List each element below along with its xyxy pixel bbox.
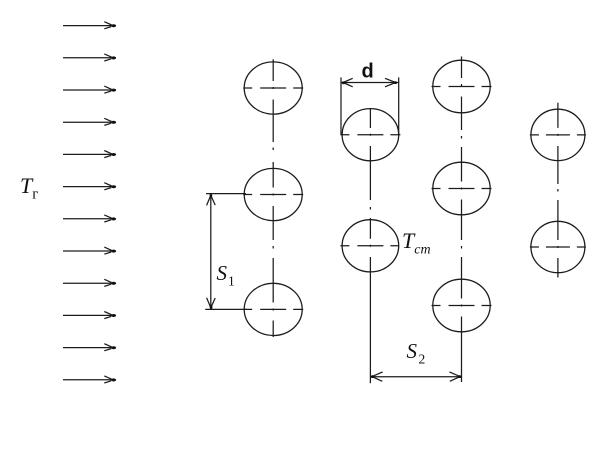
centerline horizontal circle row2 col3: [432, 188, 492, 190]
centerline vertical axis col1: [272, 59, 274, 337]
centerline vertical axis col3: [461, 57, 463, 383]
tube circle row2 col2: [342, 220, 399, 272]
label T_gas: [20, 173, 38, 203]
label S1: [217, 261, 235, 289]
flow arrow 5: [63, 151, 116, 158]
svg-text:Tг: Tг: [20, 173, 38, 203]
centerline horizontal circle row2 col1: [243, 194, 303, 196]
centerline horizontal circle row1 col3: [432, 86, 492, 88]
tube circle row2 col1: [244, 168, 302, 220]
tube circle row1 col2: [342, 109, 399, 161]
dimension d extension line left: [340, 77, 342, 134]
dimension d extension line right: [398, 77, 400, 134]
flow arrow 9: [63, 279, 116, 286]
svg-text:S2: S2: [407, 339, 426, 367]
flow arrow 1: [63, 22, 116, 29]
svg-text:d: d: [362, 61, 374, 83]
flow arrow 7: [63, 215, 116, 222]
centerline horizontal circle row2 col4: [530, 246, 586, 248]
dimension S2 line with arrowheads: [370, 372, 461, 381]
label T_wall: [402, 228, 431, 258]
tube circle row1 col1: [244, 62, 302, 114]
flow arrow 12: [63, 376, 116, 383]
centerline horizontal circle row3 col3: [432, 305, 492, 307]
tube circle row2 col4: [531, 221, 585, 272]
centerline horizontal circle row3 col1: [243, 308, 303, 310]
flow arrow 11: [63, 344, 116, 351]
centerline horizontal circle row1 col2: [340, 134, 400, 136]
dimension S1 extension line bottom: [205, 308, 246, 310]
centerline horizontal circle row1 col4: [530, 134, 586, 136]
tube circle row2 col3: [433, 162, 490, 215]
flow arrow 3: [63, 86, 116, 93]
tube circle row1 col3: [433, 60, 490, 113]
flow arrow 6: [63, 183, 116, 190]
flow arrow 8: [63, 247, 116, 254]
dimension d line with arrowheads: [341, 78, 399, 87]
tube circle row3 col3: [433, 279, 490, 332]
centerline horizontal circle row2 col2: [340, 245, 398, 247]
tube circle row1 col4: [531, 109, 585, 160]
svg-text:S1: S1: [217, 261, 235, 289]
svg-text:Tcm: Tcm: [402, 228, 431, 258]
label S2: [407, 339, 426, 367]
centerline vertical axis col2: [369, 109, 371, 384]
flow arrow 10: [63, 312, 116, 319]
tube circle row3 col1: [244, 283, 302, 335]
dimension S1 extension line top: [206, 193, 246, 195]
label d: [362, 61, 374, 83]
flow arrow 4: [63, 118, 116, 125]
centerline vertical axis col4: [557, 103, 559, 278]
dimension S1 vertical line with arrowheads: [207, 194, 216, 310]
centerline horizontal circle row1 col1: [243, 87, 303, 89]
flow arrow 2: [63, 54, 116, 61]
